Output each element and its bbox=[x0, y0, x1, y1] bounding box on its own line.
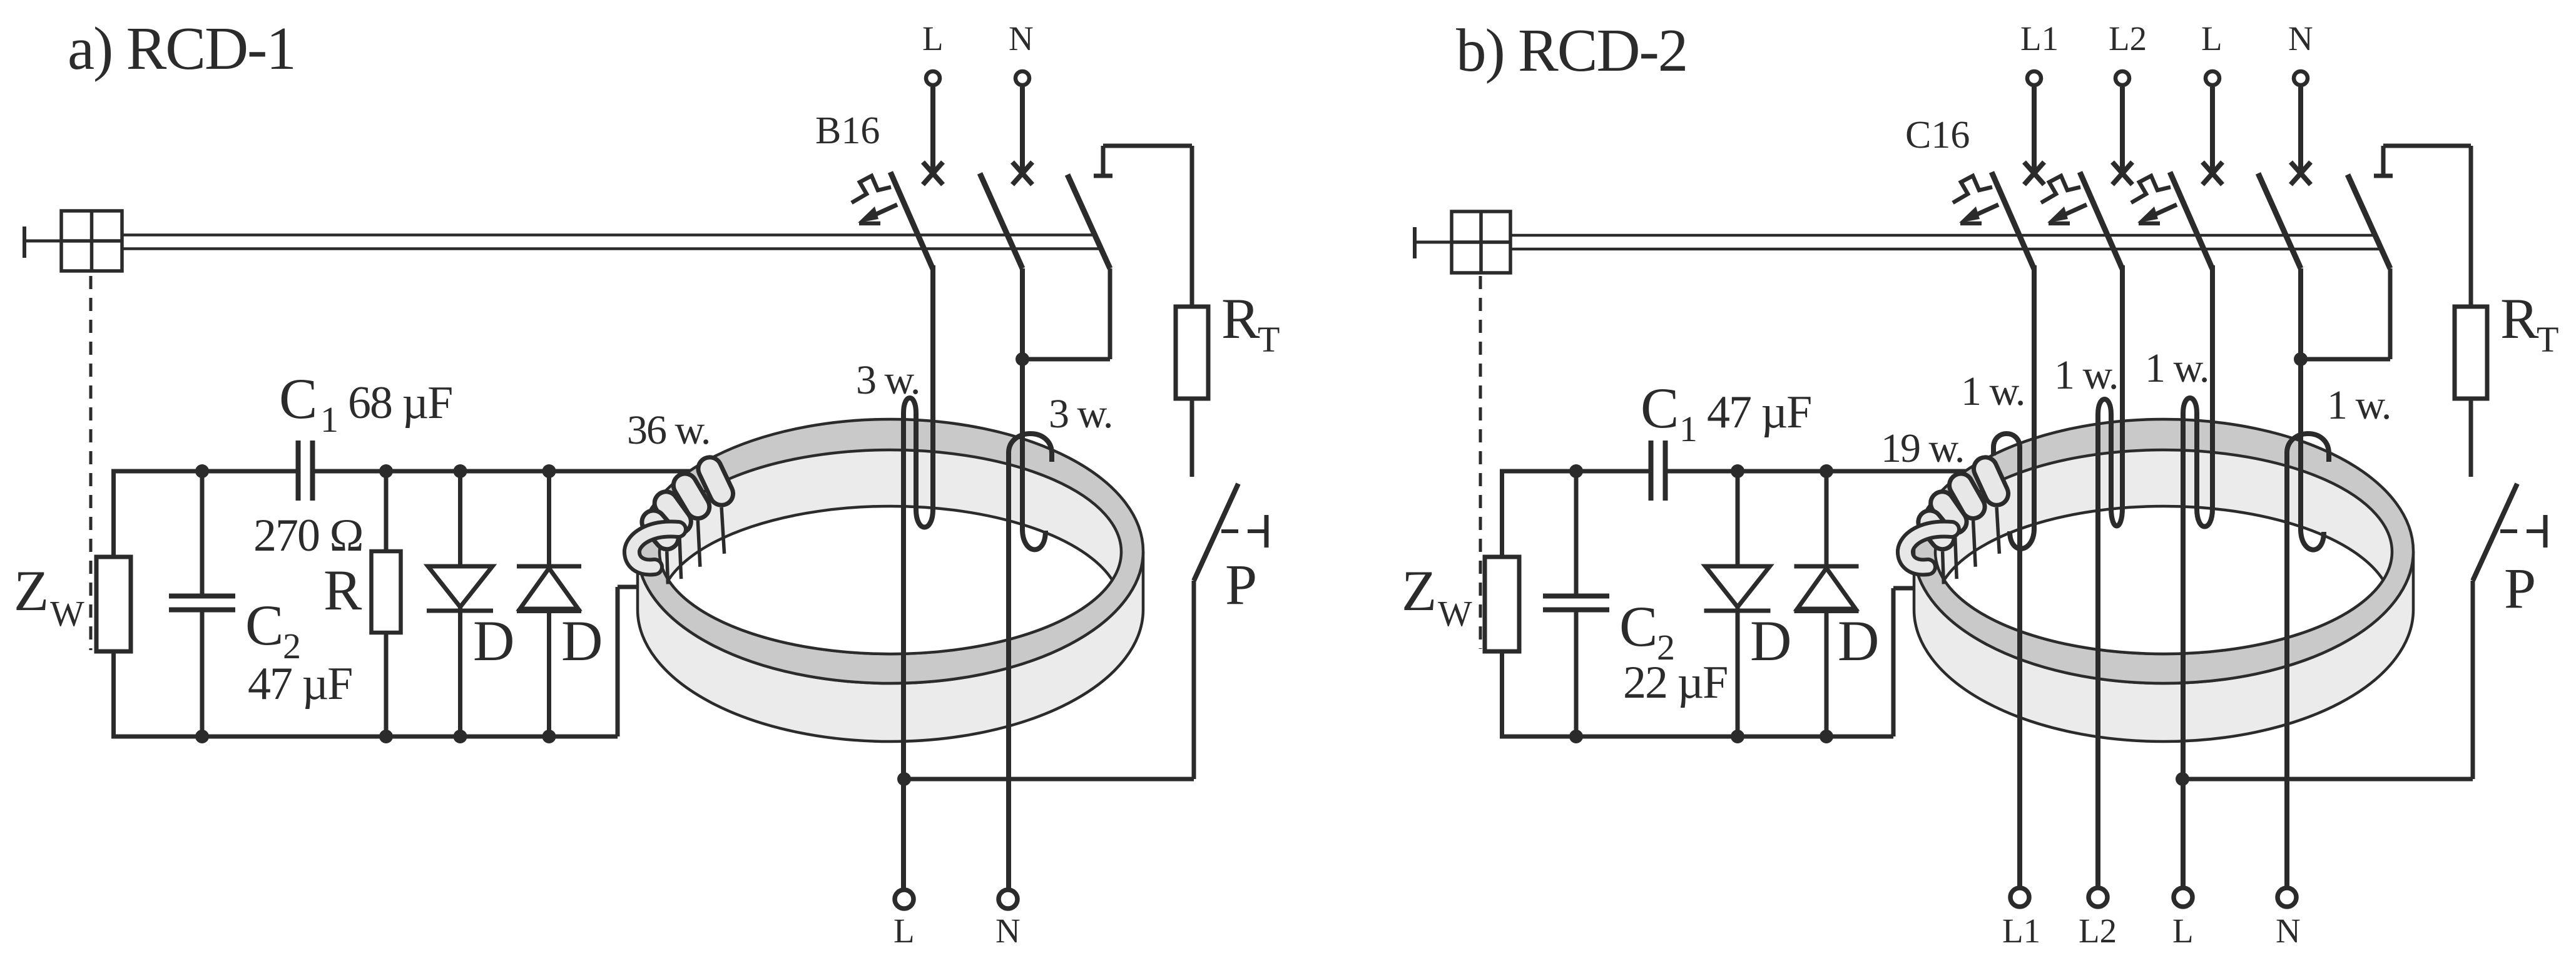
svg-text:C: C bbox=[1619, 594, 1657, 658]
svg-text:1 w.: 1 w. bbox=[2145, 345, 2208, 391]
svg-text:36 w.: 36 w. bbox=[627, 407, 710, 453]
svg-text:L2: L2 bbox=[2079, 912, 2117, 950]
svg-text:L: L bbox=[922, 19, 944, 58]
svg-text:L2: L2 bbox=[2109, 19, 2147, 58]
svg-text:19 w.: 19 w. bbox=[1881, 425, 1963, 471]
svg-text:47 µF: 47 µF bbox=[248, 658, 352, 710]
svg-text:W: W bbox=[1438, 593, 1472, 634]
svg-text:C: C bbox=[279, 367, 317, 431]
svg-text:68 µF: 68 µF bbox=[348, 377, 452, 429]
svg-text:D: D bbox=[1838, 609, 1879, 673]
svg-text:1 w.: 1 w. bbox=[1961, 369, 2024, 414]
svg-text:R: R bbox=[2500, 287, 2539, 350]
svg-text:C16: C16 bbox=[1905, 114, 1970, 156]
svg-text:Z: Z bbox=[14, 559, 49, 623]
svg-text:D: D bbox=[561, 609, 603, 673]
svg-text:W: W bbox=[50, 593, 84, 634]
svg-text:P: P bbox=[1225, 553, 1257, 616]
svg-text:R: R bbox=[1221, 287, 1260, 350]
svg-text:b) RCD-2: b) RCD-2 bbox=[1456, 17, 1687, 84]
svg-text:3 w.: 3 w. bbox=[856, 357, 919, 403]
svg-text:L: L bbox=[2201, 19, 2222, 58]
svg-text:C: C bbox=[245, 593, 283, 657]
svg-text:22 µF: 22 µF bbox=[1623, 657, 1727, 708]
svg-text:47 µF: 47 µF bbox=[1707, 387, 1811, 438]
svg-text:D: D bbox=[1750, 609, 1791, 673]
svg-text:C: C bbox=[1641, 376, 1679, 440]
svg-text:Z: Z bbox=[1402, 559, 1437, 623]
svg-text:1: 1 bbox=[320, 399, 339, 440]
svg-text:N: N bbox=[1009, 19, 1034, 58]
svg-text:R: R bbox=[323, 558, 362, 622]
svg-text:1 w.: 1 w. bbox=[2327, 382, 2390, 428]
svg-text:T: T bbox=[1258, 319, 1280, 360]
svg-text:B16: B16 bbox=[815, 110, 880, 152]
svg-text:T: T bbox=[2537, 319, 2558, 360]
svg-text:N: N bbox=[995, 912, 1021, 950]
svg-text:L1: L1 bbox=[2020, 19, 2059, 58]
svg-text:L: L bbox=[893, 912, 915, 950]
svg-text:1: 1 bbox=[1679, 409, 1698, 449]
svg-text:270 Ω: 270 Ω bbox=[253, 510, 363, 561]
svg-text:L: L bbox=[2172, 912, 2194, 950]
svg-text:N: N bbox=[2276, 912, 2301, 950]
svg-text:D: D bbox=[473, 609, 514, 673]
svg-text:3 w.: 3 w. bbox=[1049, 391, 1112, 437]
svg-text:1 w.: 1 w. bbox=[2054, 352, 2117, 398]
svg-text:P: P bbox=[2504, 556, 2536, 620]
svg-text:N: N bbox=[2288, 19, 2313, 58]
svg-text:a) RCD-1: a) RCD-1 bbox=[68, 15, 295, 82]
svg-text:L1: L1 bbox=[2002, 912, 2040, 950]
